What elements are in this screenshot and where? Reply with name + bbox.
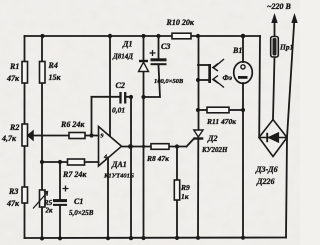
svg-text:R11 470к: R11 470к [206,117,236,126]
junction dots middle [40,78,245,164]
resistor R11 [207,107,229,113]
svg-text:Пр1: Пр1 [279,43,293,52]
resistor R4 [40,62,46,84]
svg-text:~220 В: ~220 В [267,2,292,11]
wire R2 wiper to opamp input [32,135,99,137]
svg-text:47к: 47к [6,199,20,208]
svg-text:5,0×25В: 5,0×25В [69,209,94,217]
svg-text:47к: 47к [6,74,20,83]
fuse FU1 [271,37,279,58]
svg-text:ДА1: ДА1 [111,160,127,169]
svg-text:R7 24к: R7 24к [62,170,87,179]
svg-text:R4: R4 [48,61,58,70]
resistor R3 [22,187,28,203]
wire C2 row [92,96,120,98]
wire left rail [24,36,26,238]
svg-text:R3: R3 [8,187,18,196]
bridge inner diode [267,133,278,142]
wire R11 row [198,109,207,111]
potentiometer R2 wiper arrow [28,131,33,140]
svg-text:0,01: 0,01 [112,106,125,115]
fuse FU1 inner fill [273,38,277,56]
svg-text:100,0×50В: 100,0×50В [154,78,184,85]
wire R7 row [42,161,99,163]
wire R9 column [176,147,178,181]
svg-text:15к: 15к [49,73,62,82]
zener diode D1 [139,61,149,72]
svg-text:R9: R9 [180,183,190,192]
svg-text:КУ202Н: КУ202Н [201,146,228,154]
resistor R1 [22,62,28,84]
lamp B1 anode dot [241,65,245,69]
photoresistor plate [208,64,211,83]
svg-text:R2: R2 [9,123,19,132]
wire zener column [143,36,145,60]
wire gate diagonal [187,139,194,146]
svg-text:Д814Д: Д814Д [112,53,133,61]
op-amp pin numbers [101,134,108,161]
svg-text:1к: 1к [181,192,189,201]
junction dots top rail [40,34,245,39]
resistor R10 [172,33,191,39]
thyristor D2 [193,130,203,139]
svg-text:9: 9 [101,134,104,140]
svg-text:R6 24к: R6 24к [60,120,85,129]
svg-text:4,7к: 4,7к [1,134,17,143]
lamp B1 cathode bar [238,76,248,79]
capacitor C1 plus [63,186,69,192]
capacitor C3 [151,60,167,64]
svg-text:Д1: Д1 [122,40,132,49]
wire R4-R5 column [41,36,43,190]
svg-text:Д226: Д226 [256,177,274,186]
wire opamp top supply [109,36,111,136]
svg-text:R1: R1 [9,62,19,71]
potentiometer R2 [22,124,28,146]
trimmer R5 arrow [33,192,48,209]
wire rail corner to bridge left vertex [258,36,261,138]
op-amp U1 [99,127,122,167]
wire bottom rail [25,237,287,240]
resistor R6 [69,133,85,139]
lamp B1 [234,62,253,84]
wire photoresistor leads [198,64,208,66]
capacitor C3 plus [150,50,156,56]
bridge D3-D6 [259,120,287,157]
trimmer R5 [40,190,46,207]
resistor R8 [151,144,169,150]
resistor R9 [174,180,179,200]
photoresistor light arrow lower [213,76,224,88]
svg-text:4: 4 [103,155,107,161]
svg-text:Д3-Д6: Д3-Д6 [255,165,278,174]
wire C3 column [158,36,160,58]
capacitor C2 [121,92,126,104]
svg-text:R10 20к: R10 20к [166,18,195,27]
photoresistor light arrow upper [213,59,224,71]
wire mains left fuse line [274,17,276,37]
wire B1 column [242,36,244,62]
svg-text:Фэ: Фэ [223,73,233,82]
wire output-C2 column [130,97,132,238]
wire top rail [25,35,261,37]
svg-text:В1: В1 [232,46,242,55]
wire thyristor column [198,36,200,130]
wire C1 branch [59,162,61,200]
svg-text:С3: С3 [161,42,170,51]
junction dots bottom rail [40,236,245,241]
wire opamp bottom supply [107,158,109,239]
wire mains right line [286,17,295,238]
mains left arrow [271,13,277,23]
mains right arrow [291,13,297,23]
capacitor C1 [53,201,67,205]
wire C2 corner vertical [91,97,93,136]
resistor R7 [68,159,85,165]
svg-text:С2: С2 [116,81,125,90]
svg-text:С1: С1 [74,197,83,206]
svg-text:К1УТ401Б: К1УТ401Б [103,173,134,180]
wire opamp output row [122,146,152,148]
svg-text:Д2: Д2 [207,134,217,143]
svg-text:R8 47к: R8 47к [146,154,169,163]
svg-text:2к: 2к [45,207,54,215]
